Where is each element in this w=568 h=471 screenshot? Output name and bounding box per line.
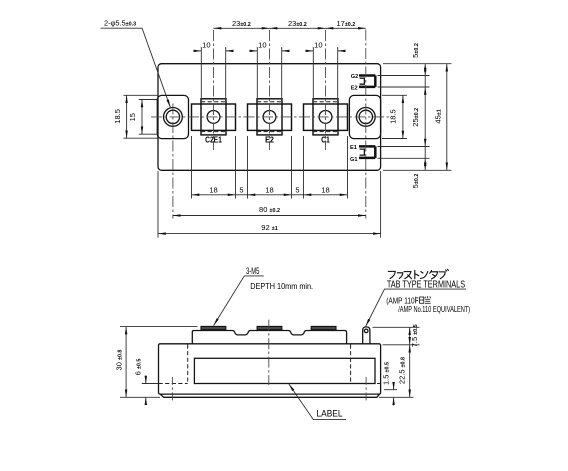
C2E1 centerline — [213, 30, 215, 150]
kana bu — [439, 269, 448, 278]
7.5±0.5 dim — [410, 324, 419, 347]
left hole vertical centerline — [172, 104, 174, 219]
45±1 dim — [434, 64, 447, 171]
svg-text:G2: G2 — [351, 74, 358, 80]
baseplate — [160, 394, 379, 397]
1.5±0.5 dim — [381, 362, 397, 405]
fast-on tab G2 — [359, 76, 375, 87]
svg-text:5: 5 — [239, 185, 243, 194]
right bolt centerline — [365, 377, 367, 402]
svg-text:45±1: 45±1 — [434, 109, 443, 123]
kana su — [404, 272, 412, 279]
right mounting hole 5.5 dia — [356, 108, 375, 127]
svg-text:5±0.2: 5±0.2 — [411, 43, 420, 58]
30±0.8 dim — [114, 327, 197, 398]
svg-text:E1: E1 — [350, 145, 357, 151]
svg-text:10: 10 — [202, 41, 210, 50]
screw terminal block C1 — [304, 99, 348, 135]
hidden flange line right — [350, 345, 352, 384]
3-M5 callout — [214, 266, 314, 325]
svg-text:7.5 ±0.5: 7.5 ±0.5 — [410, 324, 419, 347]
kana to — [415, 270, 419, 279]
module body outline — [158, 64, 381, 171]
svg-text:17±0.2: 17±0.2 — [337, 19, 356, 28]
svg-text:80 ±0.2: 80 ±0.2 — [259, 205, 280, 214]
screw terminal block E2 — [248, 99, 292, 135]
6±0.5 dim — [134, 359, 159, 405]
svg-text:18: 18 — [265, 185, 273, 194]
center hidden line — [268, 320, 270, 385]
M5 boss cap 1 — [201, 326, 226, 329]
kana n — [420, 271, 427, 278]
right mounting boss — [349, 95, 380, 138]
svg-text:5±0.2: 5±0.2 — [411, 174, 420, 189]
side body outline — [159, 344, 381, 394]
tab type terminals callout katakana line — [388, 269, 448, 279]
kana ta — [430, 270, 438, 279]
lid profile with boss platforms — [192, 331, 346, 344]
svg-text:23±0.2: 23±0.2 — [232, 19, 251, 28]
label recess rectangle — [194, 358, 375, 383]
screw terminal block C2E1 — [192, 99, 236, 135]
kana small a — [397, 273, 403, 279]
fast-on tab E2 — [359, 86, 375, 89]
fast-on tab side view — [363, 327, 370, 344]
tab notch E1/G1 — [360, 149, 365, 155]
92±1 dim — [158, 171, 381, 238]
hole callout 2-phi5.5 — [101, 19, 171, 108]
svg-text:10: 10 — [258, 41, 266, 50]
svg-text:DEPTH 10mm min.: DEPTH 10mm min. — [250, 281, 313, 291]
E2 centerline — [269, 30, 271, 150]
LABEL callout — [289, 384, 346, 420]
horizontal centerline — [151, 116, 391, 118]
svg-text:5: 5 — [295, 185, 299, 194]
22.5±0.8 dim — [398, 345, 410, 398]
80±0.2 dim — [173, 205, 366, 216]
svg-text:G1: G1 — [350, 157, 357, 163]
svg-text:LABEL: LABEL — [317, 409, 343, 419]
M5 boss cap 3 — [311, 326, 336, 329]
fast-on tab G1 — [359, 157, 375, 160]
svg-text:/AMP No.110 EQUIVALENT): /AMP No.110 EQUIVALENT) — [398, 305, 470, 314]
M5 boss cap 2 — [257, 326, 282, 329]
svg-text:25±0.2: 25±0.2 — [411, 108, 420, 127]
svg-text:2-φ5.5±0.3: 2-φ5.5±0.3 — [104, 19, 136, 28]
svg-text:6 ±0.5: 6 ±0.5 — [134, 359, 143, 376]
svg-text:23±0.2: 23±0.2 — [288, 19, 307, 28]
hidden flange line left — [187, 345, 189, 384]
C1 centerline — [325, 30, 327, 150]
right side ext lines — [373, 326, 420, 328]
svg-text:10: 10 — [314, 41, 322, 50]
svg-text:15: 15 — [128, 113, 137, 121]
svg-text:1.5 ±0.5: 1.5 ±0.5 — [381, 362, 390, 385]
svg-text:(AMP 110: (AMP 110 — [386, 295, 415, 305]
svg-text:18: 18 — [321, 185, 329, 194]
left mounting hole 5.5 dia — [164, 108, 183, 127]
svg-text:22.5 ±0.8: 22.5 ±0.8 — [398, 357, 407, 384]
tab type terminals callout — [366, 279, 471, 326]
svg-text:E2: E2 — [351, 86, 358, 92]
svg-text:18.5: 18.5 — [389, 109, 398, 124]
left bolt centerline — [171, 377, 173, 402]
svg-text:92 ±1: 92 ±1 — [261, 223, 277, 232]
right hole vertical centerline — [365, 30, 367, 219]
svg-text:18: 18 — [209, 185, 217, 194]
tab notch G2/E2 — [360, 78, 365, 84]
left mounting boss — [157, 95, 188, 138]
svg-text:30 ±0.8: 30 ±0.8 — [114, 350, 123, 371]
svg-text:18.5: 18.5 — [113, 109, 122, 124]
kanji soutou (equivalent) — [416, 296, 431, 303]
fast-on tab E1 — [359, 146, 375, 158]
kana fu — [388, 271, 395, 278]
